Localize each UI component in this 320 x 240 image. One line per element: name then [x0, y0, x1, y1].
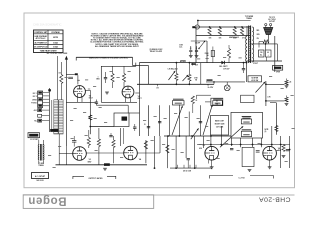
capacitor C13 — [230, 148, 233, 150]
V2 pins — [125, 97, 127, 102]
capacitor C5 — [104, 77, 107, 79]
wire — [60, 84, 62, 100]
wire — [259, 41, 263, 43]
V5 cathode — [269, 160, 271, 167]
V4 cathode — [211, 160, 213, 167]
wire x90 upper — [89, 90, 91, 100]
junction square — [48, 89, 51, 91]
interlock box — [248, 76, 262, 82]
transformer T1 pri — [38, 145, 39, 161]
resistor R1 — [60, 75, 63, 84]
ground — [285, 85, 289, 87]
wire — [271, 126, 273, 146]
wire — [252, 138, 254, 147]
svg-text:ON-OFF: ON-OFF — [195, 43, 200, 45]
voltage chart table — [34, 30, 64, 53]
sheet border — [24, 13, 295, 188]
svg-text:FUSE: FUSE — [205, 53, 209, 55]
pilot lamp P1 — [195, 25, 199, 29]
bal pot 1 — [169, 71, 176, 80]
wire v90 low — [89, 142, 91, 147]
screen bus y144 — [197, 144, 290, 146]
resistor R31 — [218, 28, 221, 36]
svg-text:117V 60~: 117V 60~ — [223, 69, 230, 71]
svg-text:C-7733: C-7733 — [239, 177, 245, 179]
capacitor C7b — [133, 126, 136, 128]
resistor R34 — [263, 40, 269, 43]
wire y65 — [133, 65, 149, 67]
svg-text:MIC 1 VOL MIC 2 VOL CHIME: MIC 1 VOL MIC 2 VOL CHIME — [47, 53, 68, 55]
svg-text:DC OUTPUT 140: DC OUTPUT 140 — [34, 45, 47, 48]
svg-text:B+ 275V: B+ 275V — [208, 87, 214, 89]
heater bus top — [196, 26, 250, 28]
shield box — [101, 66, 136, 102]
feedback loop — [241, 95, 254, 102]
wire v200 — [200, 63, 202, 85]
main bus y63 — [139, 62, 246, 64]
bottom bus left — [56, 164, 148, 166]
filter box C20A — [259, 50, 265, 57]
svg-text:BOOST 12DB: BOOST 12DB — [215, 124, 226, 126]
wire — [289, 136, 291, 168]
value label specks — [59, 72, 62, 75]
svg-text:TEL: TEL — [34, 120, 37, 122]
bus marks — [192, 63, 194, 66]
wire — [246, 63, 248, 82]
pilot lamp P2 — [224, 85, 230, 91]
svg-text:+: + — [268, 55, 269, 57]
ground — [103, 167, 107, 169]
wire — [220, 126, 222, 146]
wire — [265, 81, 267, 106]
filter box C20B — [266, 50, 272, 57]
T1 leads — [38, 140, 40, 145]
V1 grid wire — [66, 73, 74, 75]
wire v189 — [188, 112, 190, 137]
ground — [282, 155, 286, 157]
drop — [127, 105, 129, 113]
resistor R33 — [240, 28, 243, 36]
capacitor C9b — [109, 135, 112, 137]
svg-text:TUBE HEAT CHART: TUBE HEAT CHART — [40, 50, 58, 53]
treble legend — [242, 116, 251, 117]
wire v179 — [178, 105, 180, 137]
svg-text:NOTE: NOTE — [265, 129, 269, 131]
wire — [77, 76, 79, 85]
capacitor C7 — [147, 126, 150, 128]
resistor R19 — [166, 145, 169, 153]
resistor R36 — [285, 97, 288, 102]
wire v66 bottom — [65, 146, 67, 165]
wire — [240, 138, 242, 147]
svg-text:+15: +15 — [289, 82, 292, 84]
bus left drop — [195, 27, 197, 63]
AC outlet box — [32, 173, 49, 179]
svg-text:6SC7: 6SC7 — [89, 97, 93, 99]
svg-text:CHB-20A: CHB-20A — [259, 196, 291, 203]
wire — [265, 57, 267, 61]
svg-text:YEL: YEL — [257, 38, 260, 40]
capacitor C12 — [187, 158, 190, 160]
wire h95 — [197, 94, 211, 96]
junction — [209, 26, 211, 28]
ground — [210, 166, 214, 168]
hum bal pot — [256, 82, 266, 93]
wire v167 — [166, 136, 168, 168]
diag wire — [220, 126, 243, 147]
switch S4 — [199, 42, 205, 49]
svg-text:.01: .01 — [190, 48, 192, 50]
wire — [206, 81, 245, 83]
resistor R18 — [144, 141, 147, 149]
wire h44 — [251, 43, 278, 45]
svg-text:GRN: GRN — [257, 34, 260, 36]
svg-text:5Y3GT: 5Y3GT — [253, 63, 258, 65]
legend box 2 — [231, 112, 263, 138]
capacitor C18 — [189, 49, 192, 51]
bass legend — [242, 129, 251, 130]
rectifier CR1 — [221, 61, 224, 65]
tube V3B — [124, 146, 138, 160]
resistor R29 — [227, 49, 230, 59]
legend box 1 — [211, 116, 229, 136]
svg-text:MIC 1: MIC 1 — [33, 93, 37, 95]
junction — [167, 135, 169, 137]
wire v203 — [202, 136, 204, 148]
cable bundle B — [59, 100, 63, 134]
wire — [275, 103, 277, 135]
wire v160 — [159, 136, 161, 153]
cap box C6 — [114, 113, 129, 127]
wire step — [213, 82, 215, 84]
heater bus bottom — [196, 35, 250, 37]
V1 pins — [77, 97, 79, 103]
svg-text:MEG: MEG — [96, 78, 99, 80]
tube V3A — [73, 147, 87, 161]
svg-text:MAROON TO REMOTE VOLUME CONTRO: MAROON TO REMOTE VOLUME CONTROL — [89, 56, 129, 59]
bus tick — [157, 84, 159, 86]
transformer T1 sec — [43, 145, 44, 161]
svg-text:SPKR: SPKR — [276, 71, 280, 73]
svg-text:MIC 2: MIC 2 — [33, 96, 37, 98]
V1 plate lead — [85, 89, 90, 91]
resistor R16 — [97, 139, 100, 147]
tall rect — [242, 147, 254, 166]
transformer T2 primary — [246, 36, 247, 62]
svg-text:TO 117V: TO 117V — [269, 17, 275, 19]
svg-text:OUTLET: OUTLET — [269, 21, 275, 23]
svg-text:A.C.: A.C. — [179, 45, 183, 48]
wire — [231, 138, 233, 146]
svg-text:6SN7: 6SN7 — [88, 161, 92, 163]
svg-text:6V6: 6V6 — [209, 38, 212, 40]
svg-text:Bogen: Bogen — [28, 194, 67, 206]
input box PHONO — [38, 109, 42, 112]
wire v145 — [145, 140, 147, 163]
ground — [285, 102, 289, 104]
wire v176 — [175, 136, 177, 168]
wire v194 — [194, 136, 196, 168]
svg-text:S3: S3 — [216, 101, 218, 103]
svg-text:ALL READINGS TAKEN WITH NO SIG: ALL READINGS TAKEN WITH NO SIGNAL INPUT. — [95, 45, 139, 48]
svg-text:0.05A: 0.05A — [53, 45, 58, 48]
svg-text:PHONO: PHONO — [31, 103, 37, 105]
junction — [154, 167, 156, 169]
svg-text:CONTROL SET: CONTROL SET — [34, 32, 48, 34]
wire — [66, 101, 96, 103]
resistor R20 — [282, 145, 285, 152]
svg-text:VOLTAGE: VOLTAGE — [51, 31, 60, 34]
input box TEL — [38, 119, 42, 122]
svg-text:V5: V5 — [207, 84, 209, 86]
capacitor C2 — [68, 76, 73, 78]
wire — [270, 102, 276, 104]
svg-text:CHB 20A SCHEMATIC: CHB 20A SCHEMATIC — [33, 23, 62, 27]
svg-text:5Y3: 5Y3 — [242, 38, 245, 40]
wire h113 — [129, 112, 140, 114]
treble cluster — [213, 99, 222, 100]
svg-text:V3: V3 — [89, 159, 91, 161]
ground — [248, 169, 252, 171]
line plug — [265, 24, 267, 26]
wire h146 — [74, 146, 88, 148]
svg-text:SEL. RECT.: SEL. RECT. — [219, 66, 228, 68]
svg-text:CUT 12DB: CUT 12DB — [216, 127, 224, 129]
capacitor C10 — [72, 140, 76, 142]
resistor R35 — [285, 80, 288, 85]
svg-text:6.3V: 6.3V — [195, 64, 198, 66]
bundle blobs — [50, 129, 58, 132]
remote bracket — [76, 56, 132, 58]
wire plate link — [86, 152, 123, 154]
svg-text:6V6: 6V6 — [219, 38, 222, 40]
svg-text:CHIME: CHIME — [32, 99, 37, 101]
wire v139 — [139, 63, 141, 136]
pot diag out — [191, 128, 199, 139]
wire nfb — [205, 101, 211, 103]
pot wiper2 — [203, 105, 212, 135]
label box S1 — [28, 133, 40, 138]
svg-text:V1: V1 — [89, 95, 91, 97]
junction — [280, 144, 282, 146]
wire plug down — [274, 36, 276, 72]
title rule — [23, 194, 295, 196]
wire h105 — [96, 104, 128, 106]
resistor R8 — [111, 74, 114, 83]
resistor marks — [89, 115, 92, 120]
svg-text:C20: C20 — [260, 52, 263, 54]
capacitor C8 — [199, 121, 202, 123]
c7733 bracket — [210, 176, 274, 179]
wire ac vertical — [206, 41, 208, 63]
tube V2 — [122, 86, 134, 98]
tap ticks — [177, 165, 179, 168]
pot wiper — [172, 106, 183, 135]
capacitor C15 — [256, 150, 260, 152]
svg-text:RED: RED — [257, 30, 260, 32]
svg-text:LOCK SW: LOCK SW — [251, 80, 259, 82]
wire v186 — [185, 136, 187, 158]
wire — [210, 136, 212, 146]
tube V1 — [74, 86, 86, 98]
resistor R15 — [87, 138, 90, 146]
bus y84 — [137, 83, 214, 85]
resistor R17 — [112, 140, 115, 148]
ground — [105, 91, 109, 93]
ground — [189, 55, 193, 57]
ground — [195, 55, 199, 57]
resistor R14 — [191, 96, 194, 104]
wire — [265, 44, 267, 50]
tube V5 out — [263, 146, 277, 160]
Bogen logo box — [23, 195, 154, 209]
wire h126 — [90, 126, 114, 128]
svg-text:0.65A: 0.65A — [53, 41, 58, 44]
transformer T1 core — [39, 144, 41, 161]
arrow to remote — [65, 56, 68, 60]
wire — [280, 136, 282, 168]
terminal wires — [43, 92, 50, 94]
svg-text:S2 INTER: S2 INTER — [251, 78, 259, 80]
svg-text:V5: V5 — [203, 145, 205, 147]
wire — [266, 83, 285, 85]
tube V4 out — [205, 146, 219, 160]
riser — [48, 88, 50, 132]
svg-text:6V6: 6V6 — [199, 148, 202, 150]
wire v150 — [148, 105, 150, 136]
transformer T2 secondary — [252, 27, 253, 62]
svg-text:60 CYCLE: 60 CYCLE — [268, 19, 275, 21]
volume cluster — [173, 99, 184, 100]
resistor R30 — [208, 28, 211, 36]
grid dash — [77, 79, 80, 81]
wire v200b — [200, 105, 202, 136]
output jacks bracket — [73, 176, 116, 179]
svg-text:1K: 1K — [196, 100, 198, 102]
fuse F1 — [211, 51, 214, 57]
wire v159 — [159, 105, 161, 136]
resistor R32 — [233, 28, 236, 36]
input jack strip — [38, 91, 43, 108]
svg-text:OUTPUT JACKS: OUTPUT JACKS — [89, 177, 104, 180]
wire v154 — [154, 136, 156, 168]
capacitor C8a — [158, 121, 161, 123]
capacitor C19 — [242, 68, 245, 70]
svg-text:V6: V6 — [278, 148, 280, 150]
wire — [191, 40, 207, 42]
wire — [260, 138, 262, 147]
long vertical x90 — [89, 100, 91, 134]
bus y136 — [164, 135, 231, 137]
wire — [266, 100, 285, 102]
capacitor C3 — [95, 101, 98, 103]
ground — [268, 166, 272, 168]
pot leads — [58, 134, 60, 165]
wire v169 — [169, 105, 171, 136]
wire y20 — [198, 20, 251, 22]
svg-text:AC POWER 117: AC POWER 117 — [34, 41, 47, 44]
bal pot 2 — [183, 75, 189, 81]
transformer T2 core — [248, 26, 250, 64]
wire pot to grid — [59, 153, 72, 155]
nfb box — [211, 98, 223, 105]
resistor R9 — [122, 74, 125, 83]
capacitor C14 — [286, 149, 289, 151]
wire v123 — [120, 128, 122, 146]
svg-text:AT 117V A.C.: AT 117V A.C. — [36, 37, 47, 40]
junction blob — [104, 163, 110, 166]
riser wires up — [57, 56, 59, 100]
svg-text:T2 POWER: T2 POWER — [245, 16, 254, 18]
plug lead — [267, 35, 269, 42]
riser2 — [51, 100, 53, 132]
tap line — [170, 167, 212, 169]
terminal box — [273, 65, 283, 70]
resistor R37 — [275, 126, 278, 132]
capacitor C17 — [195, 49, 198, 51]
input box AUX — [38, 114, 42, 117]
